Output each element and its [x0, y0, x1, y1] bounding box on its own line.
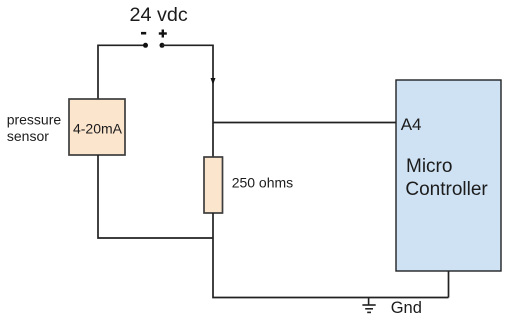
svg-text:sensor: sensor — [7, 128, 49, 144]
micro controller U1 body — [396, 80, 501, 271]
battery positive terminal mark (+) — [159, 30, 167, 38]
svg-text:pressure: pressure — [7, 111, 62, 127]
current direction arrow on positive supply wire — [211, 78, 216, 85]
battery terminal node (negative) — [143, 43, 148, 48]
svg-text:Micro: Micro — [406, 156, 452, 177]
resistor R1 body — [204, 157, 223, 213]
wire: MCU ground stub from box bottom to ground bus — [448, 271, 450, 298]
wire: pressure sensor bottom return to resistor bottom node — [98, 155, 213, 238]
svg-text:Controller: Controller — [405, 179, 488, 200]
wire: A4 signal wire from junction to micro controller — [213, 122, 396, 124]
pressure sensor PS1 (4-20mA transmitter body) — [69, 99, 125, 155]
battery terminal node (positive) — [160, 43, 165, 48]
svg-text:250 ohms: 250 ohms — [232, 175, 293, 191]
wire: from battery positive terminal right and down to resistor top — [162, 45, 213, 157]
svg-text:Gnd: Gnd — [391, 299, 422, 317]
wire: from battery negative terminal down to pressure sensor top — [98, 45, 146, 99]
svg-text:A4: A4 — [401, 115, 422, 134]
wire: resistor bottom down to ground bus and right to MCU stub — [213, 213, 449, 298]
svg-text:24 vdc: 24 vdc — [130, 4, 188, 26]
svg-text:4-20mA: 4-20mA — [73, 121, 123, 137]
ground symbol — [362, 298, 375, 313]
battery negative terminal mark (-) — [141, 32, 146, 35]
